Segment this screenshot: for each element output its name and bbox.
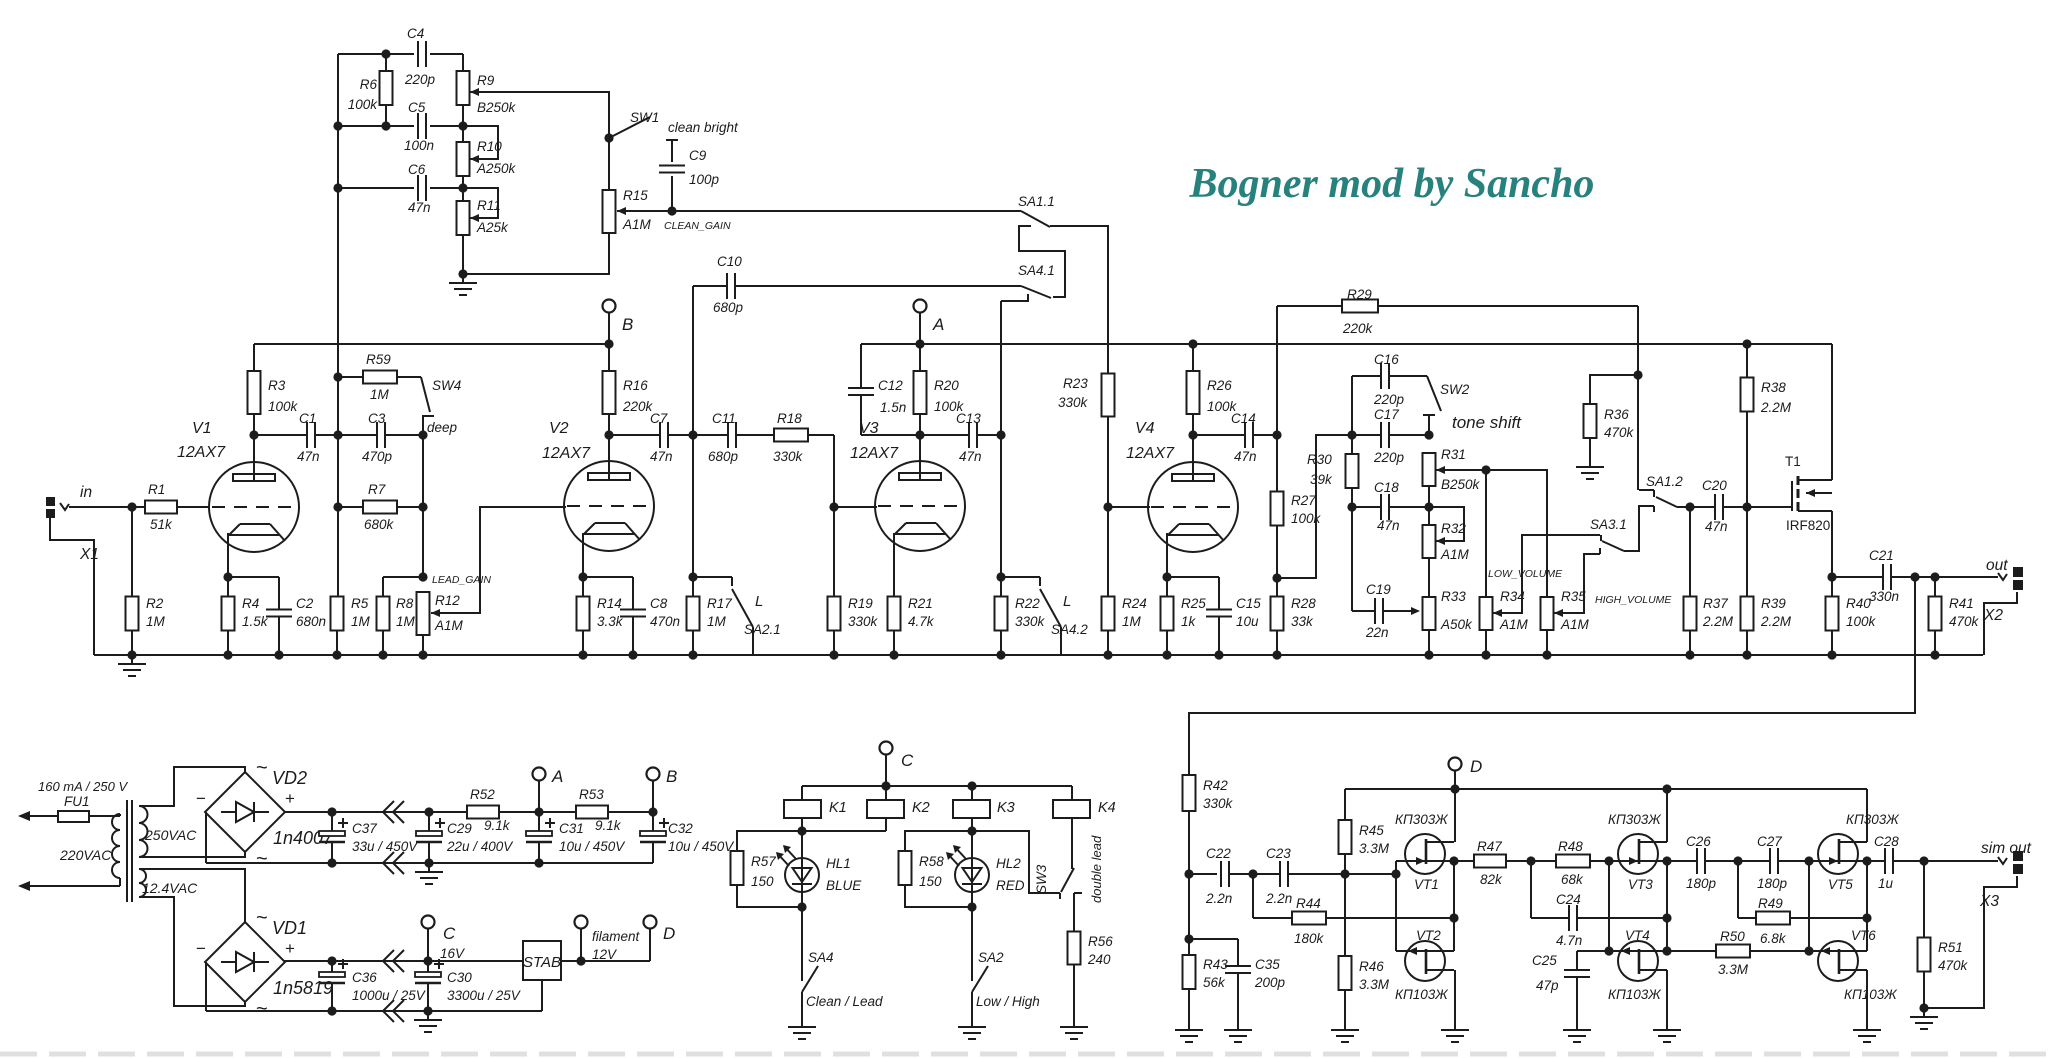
wire lower positive rail [284, 960, 523, 962]
svg-text:double lead: double lead [1089, 835, 1104, 903]
wire R44 to VT1 gate vertical [1326, 917, 1454, 919]
switch SA4.2 [1001, 577, 1088, 655]
svg-text:R38: R38 [1761, 380, 1786, 395]
node R43 top [1184, 934, 1193, 943]
node R27 R28 tap [1272, 573, 1281, 582]
svg-text:R57: R57 [751, 854, 776, 869]
svg-text:10u / 450V: 10u / 450V [559, 839, 626, 854]
capacitor C13 [956, 411, 982, 464]
svg-text:SW3: SW3 [1034, 864, 1049, 894]
node C37 bottom [327, 858, 336, 867]
wire R57 loop [737, 831, 802, 907]
svg-text:1k: 1k [1181, 614, 1197, 629]
svg-text:1.5k: 1.5k [242, 614, 269, 629]
svg-text:D: D [663, 924, 675, 943]
wire R9 wiper to SW1 node [470, 88, 609, 138]
svg-text:VT4: VT4 [1625, 928, 1650, 943]
svg-text:VD1: VD1 [272, 918, 307, 938]
svg-text:C8: C8 [650, 596, 668, 611]
terminal C filament [422, 916, 467, 962]
wire plate to C13 [920, 434, 969, 436]
wire C10 line [692, 286, 694, 597]
svg-text:250VAC: 250VAC [144, 827, 197, 843]
wire VT1 drain [1454, 789, 1456, 842]
svg-text:C30: C30 [447, 970, 472, 985]
wire C19 line [1352, 607, 1420, 615]
svg-text:BLUE: BLUE [826, 878, 862, 893]
wire deep vertical x423 [422, 416, 424, 577]
wire cathode to C2 [228, 576, 279, 578]
svg-text:tone shift: tone shift [1452, 413, 1522, 432]
node V4 plate [1188, 430, 1197, 439]
wire VT1 source down [1453, 861, 1455, 951]
wire supply positive rail [284, 811, 653, 813]
svg-text:12AX7: 12AX7 [177, 444, 226, 461]
led HL2 [946, 831, 1025, 907]
capacitor C17 [1373, 407, 1405, 465]
svg-text:100k: 100k [268, 399, 299, 414]
switch SA2.1 [693, 577, 781, 655]
svg-text:100k: 100k [348, 97, 379, 112]
resistor R1 [145, 482, 177, 532]
svg-text:C25: C25 [1532, 953, 1557, 968]
ground main rail symbol [118, 655, 146, 676]
node R35 ground [1542, 650, 1551, 659]
svg-text:C9: C9 [689, 148, 707, 163]
svg-text:R43: R43 [1203, 957, 1228, 972]
svg-text:A1M: A1M [1560, 617, 1590, 632]
svg-text:R51: R51 [1938, 940, 1963, 955]
wire top line to C4 network [338, 54, 463, 72]
svg-text:R7: R7 [368, 482, 386, 497]
text double lead [1089, 835, 1104, 903]
svg-text:1M: 1M [146, 614, 166, 629]
wire C6 line [338, 175, 463, 202]
wire 250VAC top to VD2 [139, 767, 245, 806]
svg-text:RED: RED [996, 878, 1025, 893]
led HL1 [776, 831, 862, 907]
wire VT3 drain [1666, 789, 1668, 842]
relay K1 [784, 786, 847, 831]
capacitor C9 [659, 148, 720, 211]
resistor R11 [457, 198, 510, 235]
resistor R18 [773, 411, 808, 464]
svg-text:2.2M: 2.2M [1760, 400, 1792, 415]
capacitor C3 [362, 411, 393, 464]
svg-text:R12: R12 [435, 593, 460, 608]
capacitor C35 [1189, 939, 1286, 1021]
svg-text:+: + [285, 939, 295, 958]
capacitor C22 [1205, 846, 1232, 906]
node V3 plate [915, 430, 924, 439]
wire C26 to C27 [1705, 860, 1770, 862]
resistor R57 [731, 851, 777, 889]
svg-text:R2: R2 [146, 596, 164, 611]
svg-text:V2: V2 [549, 420, 569, 437]
wire VD2 minus to negative rail [205, 812, 207, 863]
node C27 left [1733, 856, 1742, 865]
svg-text:330k: 330k [1203, 796, 1234, 811]
svg-text:C37: C37 [352, 821, 377, 836]
svg-text:КП303Ж: КП303Ж [1608, 812, 1662, 827]
wire C17 line [1352, 434, 1429, 436]
svg-text:R56: R56 [1088, 934, 1113, 949]
svg-text:180p: 180p [1686, 876, 1717, 891]
svg-text:2.2n: 2.2n [1265, 891, 1292, 906]
ground C35 [1224, 1021, 1252, 1042]
node V2 cathode [578, 533, 587, 597]
node VT6 gate [1804, 946, 1813, 955]
node vertical-338 on C1 line [333, 430, 342, 439]
resistor R43 [1183, 939, 1229, 1021]
resistor R29 [1277, 287, 1378, 336]
tube V1 12AX7 [177, 420, 299, 552]
wire R12 wiper to V2 grid [431, 507, 566, 613]
svg-text:150: 150 [751, 874, 774, 889]
svg-text:R4: R4 [242, 596, 259, 611]
svg-text:100n: 100n [404, 138, 434, 153]
svg-text:C26: C26 [1686, 834, 1711, 849]
transformer secondary 250VAC [139, 806, 197, 857]
node R40 ground [1827, 650, 1836, 659]
svg-text:6.8k: 6.8k [1760, 931, 1787, 946]
svg-text:A250k: A250k [476, 161, 517, 176]
wire 12.4VAC top to VD1 [139, 869, 245, 922]
resistor R20 [914, 344, 965, 414]
svg-text:68k: 68k [1561, 872, 1584, 887]
node R2 top [127, 502, 136, 511]
terminal A bottom [533, 767, 564, 812]
wire input tip [69, 506, 145, 508]
ground R46 [1331, 1021, 1359, 1042]
node C15 ground [1214, 650, 1223, 659]
capacitor C29 [416, 812, 514, 863]
resistor R46 [1339, 874, 1390, 1021]
ground VT4 [1653, 1021, 1681, 1042]
svg-text:3.3M: 3.3M [1718, 962, 1749, 977]
capacitor C2 [266, 577, 326, 655]
svg-text:R18: R18 [777, 411, 802, 426]
svg-text:3.3M: 3.3M [1359, 841, 1390, 856]
switch SA1.1 [1018, 194, 1055, 227]
svg-text:C19: C19 [1366, 582, 1391, 597]
capacitor C5 [404, 100, 434, 153]
svg-text:R27: R27 [1291, 493, 1316, 508]
wire R11 bottom to ground node [462, 235, 464, 274]
svg-text:LEAD_GAIN: LEAD_GAIN [432, 574, 491, 586]
wire R31 wiper [1436, 466, 1486, 474]
wire source to C21 [1832, 576, 1883, 578]
svg-text:680p: 680p [713, 300, 744, 315]
resistor R56 [1068, 893, 1114, 1018]
svg-text:A: A [551, 767, 563, 786]
svg-text:R53: R53 [579, 787, 604, 802]
node R12 ground [418, 650, 427, 659]
svg-text:R49: R49 [1758, 896, 1783, 911]
stabilizer STAB [523, 941, 581, 980]
wire 250VAC bottom to VD2 [139, 852, 245, 857]
svg-text:1M: 1M [351, 614, 371, 629]
capacitor C1 [297, 411, 320, 464]
svg-text:B250k: B250k [477, 100, 517, 115]
svg-text:R44: R44 [1296, 896, 1321, 911]
transistor VT4 [1608, 928, 1667, 1002]
svg-text:R1: R1 [148, 482, 165, 497]
node C6 left [333, 183, 342, 192]
svg-text:A50k: A50k [1440, 617, 1473, 632]
wire C25 branch [1577, 950, 1609, 952]
svg-text:IRF820: IRF820 [1786, 518, 1830, 533]
node V4 cathode [1162, 572, 1171, 581]
node C37 top [327, 807, 336, 816]
node R51 top [1919, 856, 1928, 865]
node V1 cathode [223, 533, 232, 597]
capacitor C31 [526, 812, 626, 863]
svg-text:680n: 680n [296, 614, 326, 629]
svg-text:R33: R33 [1441, 589, 1466, 604]
node ground junction top-left [458, 269, 467, 278]
switch SA2 [972, 950, 1040, 1018]
svg-text:C4: C4 [407, 26, 424, 41]
switch SW4 [397, 377, 461, 435]
node tone stack input [1347, 430, 1356, 439]
transistor VT5 [1809, 812, 1900, 892]
wire C24 to VT3 source vertical [1577, 917, 1667, 919]
node C9 bottom [667, 206, 676, 215]
svg-text:CLEAN_GAIN: CLEAN_GAIN [664, 220, 731, 232]
svg-text:47n: 47n [959, 449, 982, 464]
resistor R23 [1058, 374, 1115, 417]
node C18 left [1347, 502, 1356, 511]
node C10 tap [688, 430, 697, 439]
node C31 top [534, 807, 543, 816]
ground C25 [1563, 1021, 1591, 1042]
svg-text:100p: 100p [689, 172, 720, 187]
resistor R48 [1556, 839, 1590, 887]
resistor R59 [363, 352, 397, 402]
svg-text:R20: R20 [934, 378, 959, 393]
wire R58 loop [905, 831, 972, 907]
potentiometer R34 [1480, 470, 1529, 655]
wire R10 wiper loop [463, 126, 498, 163]
bridge rectifier VD1 [196, 907, 333, 1020]
svg-text:47n: 47n [1705, 519, 1728, 534]
svg-text:R50: R50 [1720, 929, 1745, 944]
node C30 bottom [423, 1006, 432, 1015]
wire R42 to C22 node [1188, 811, 1190, 939]
svg-text:K2: K2 [912, 800, 930, 816]
svg-text:200p: 200p [1254, 975, 1286, 990]
node C18 right [1424, 502, 1433, 511]
svg-text:680k: 680k [364, 517, 395, 532]
wire C14 right [1253, 434, 1277, 436]
svg-text:R24: R24 [1122, 596, 1147, 611]
svg-text:47n: 47n [408, 200, 431, 215]
svg-text:−: − [196, 939, 206, 958]
wire R29 right to SA1.2 [1378, 306, 1638, 490]
ground R51 [1910, 1008, 1938, 1029]
svg-text:330k: 330k [848, 614, 879, 629]
tube V2 12AX7 [542, 420, 654, 551]
node VT4 source [1662, 946, 1671, 955]
node R45 R46 junction [1340, 869, 1349, 878]
svg-text:R6: R6 [360, 77, 378, 92]
svg-text:1u: 1u [1878, 876, 1894, 891]
node VT3 source down [1662, 913, 1671, 922]
svg-text:1M: 1M [707, 614, 727, 629]
capacitor C20 [1702, 478, 1728, 534]
svg-text:VT3: VT3 [1628, 877, 1653, 892]
node R39 ground [1742, 650, 1751, 659]
wire plate to C14 [1193, 434, 1245, 436]
svg-text:R28: R28 [1291, 596, 1316, 611]
svg-text:filament: filament [592, 929, 641, 944]
svg-text:680p: 680p [708, 449, 739, 464]
svg-text:R23: R23 [1063, 376, 1088, 391]
svg-text:out: out [1986, 557, 2008, 574]
svg-text:R5: R5 [351, 596, 369, 611]
node R28 ground [1272, 650, 1281, 659]
svg-text:220p: 220p [1373, 450, 1405, 465]
wire C20 to gate [1723, 506, 1792, 508]
capacitor C21 [1869, 548, 1899, 604]
capacitor C16 [1373, 352, 1405, 407]
svg-text:82k: 82k [1480, 872, 1503, 887]
relay K3 [953, 786, 1015, 831]
switch SA4 [802, 950, 883, 1018]
node R24 ground [1103, 650, 1112, 659]
node LEAD_GAIN [418, 572, 491, 586]
svg-text:LOW_VOLUME: LOW_VOLUME [1488, 568, 1563, 580]
svg-text:C11: C11 [712, 411, 736, 426]
capacitor C28 [1874, 834, 1899, 891]
node VT3 source [1662, 856, 1671, 865]
chevron positive rail [383, 801, 404, 823]
node deep line C3 [418, 430, 427, 439]
svg-text:470p: 470p [362, 449, 393, 464]
wire supply negative rail [206, 862, 653, 864]
svg-text:R26: R26 [1207, 378, 1232, 393]
capacitor C6 [408, 162, 431, 215]
svg-text:SW1: SW1 [630, 110, 659, 125]
svg-text:VT6: VT6 [1851, 928, 1876, 943]
node R14 ground [578, 650, 587, 659]
node C13 right [996, 430, 1005, 439]
svg-text:SA2.1: SA2.1 [744, 622, 781, 637]
node SA1.2 output [1685, 502, 1694, 511]
svg-text:in: in [80, 484, 92, 501]
svg-text:470k: 470k [1938, 958, 1969, 973]
wire to C20 [1690, 506, 1715, 508]
wire C3 right [385, 434, 423, 436]
svg-text:C14: C14 [1231, 411, 1256, 426]
svg-text:220p: 220p [1373, 392, 1405, 407]
svg-text:C17: C17 [1374, 407, 1399, 422]
wire X3 sleeve [1924, 876, 2017, 1008]
node VT1 source junction [1449, 913, 1458, 922]
svg-text:9.1k: 9.1k [595, 818, 622, 833]
resistor R6 [348, 71, 393, 112]
svg-text:~: ~ [256, 757, 268, 779]
node HL2 bottom [967, 902, 976, 911]
node C bus [881, 781, 890, 790]
wire lower negative rail [206, 980, 542, 1011]
wire D rail [1345, 789, 1867, 821]
svg-text:A25k: A25k [476, 220, 509, 235]
transformer core [127, 800, 132, 902]
resistor R52 [467, 787, 499, 819]
node R2 ground [127, 650, 136, 659]
node R7 right [397, 502, 428, 511]
svg-text:12AX7: 12AX7 [542, 445, 591, 462]
svg-text:C: C [901, 751, 914, 770]
ground R36 [1576, 458, 1604, 479]
wire HL2 to SA2 [971, 907, 973, 981]
wire ground node to R15 bottom [463, 233, 609, 274]
wire VT3 source vertical [1666, 861, 1668, 951]
transistor VT3 [1608, 812, 1667, 892]
svg-text:SW2: SW2 [1440, 382, 1470, 397]
node R5 ground [332, 650, 341, 659]
resistor R14 [577, 596, 624, 655]
svg-text:16V: 16V [440, 946, 466, 961]
svg-text:R29: R29 [1347, 287, 1372, 302]
transformer primary 220VAC [59, 814, 120, 886]
svg-text:47n: 47n [1377, 518, 1400, 533]
node VT1 source [1449, 856, 1458, 865]
node A rail [915, 339, 924, 348]
node C2 ground [274, 650, 283, 659]
wire input sleeve to ground rail [50, 518, 94, 655]
svg-text:V1: V1 [192, 420, 212, 437]
svg-text:C13: C13 [956, 411, 981, 426]
svg-text:T1: T1 [1785, 454, 1801, 469]
wire tap to tone stack [1277, 435, 1352, 578]
svg-text:R36: R36 [1604, 407, 1629, 422]
node C22 C23 junction [1248, 869, 1257, 878]
svg-text:Low / High: Low / High [976, 994, 1040, 1009]
svg-text:R32: R32 [1441, 521, 1466, 536]
svg-text:R17: R17 [707, 596, 732, 611]
capacitor C37 [319, 812, 419, 863]
node C22 left [1184, 869, 1193, 878]
resistor R50 [1667, 929, 1809, 977]
svg-text:Bogner mod by Sancho: Bogner mod by Sancho [1189, 161, 1595, 207]
resistor R40 [1826, 577, 1877, 655]
node R41 ground [1930, 650, 1939, 659]
svg-text:SA4.1: SA4.1 [1018, 263, 1055, 278]
node STAB output [576, 956, 585, 965]
switch SA4.1 contact hook [1001, 294, 1028, 435]
svg-text:V4: V4 [1135, 420, 1155, 437]
svg-text:C21: C21 [1869, 548, 1894, 563]
resistor R17 [687, 596, 733, 655]
svg-text:R48: R48 [1558, 839, 1583, 854]
node R26 rail [1188, 339, 1197, 348]
tube V4 12AX7 [1126, 420, 1238, 552]
node R21 ground [889, 650, 898, 659]
ground VT6 [1853, 1021, 1881, 1042]
svg-text:330n: 330n [1869, 589, 1899, 604]
svg-text:56k: 56k [1203, 975, 1226, 990]
svg-text:R22: R22 [1015, 596, 1040, 611]
wire R32 to R33 [1428, 486, 1430, 597]
potentiometer R31 [1423, 447, 1481, 492]
wire VT3 source to C26 [1667, 860, 1697, 862]
svg-text:C12: C12 [878, 378, 903, 393]
node HL1 bottom [797, 902, 806, 911]
wire V1 plate node [253, 414, 255, 481]
